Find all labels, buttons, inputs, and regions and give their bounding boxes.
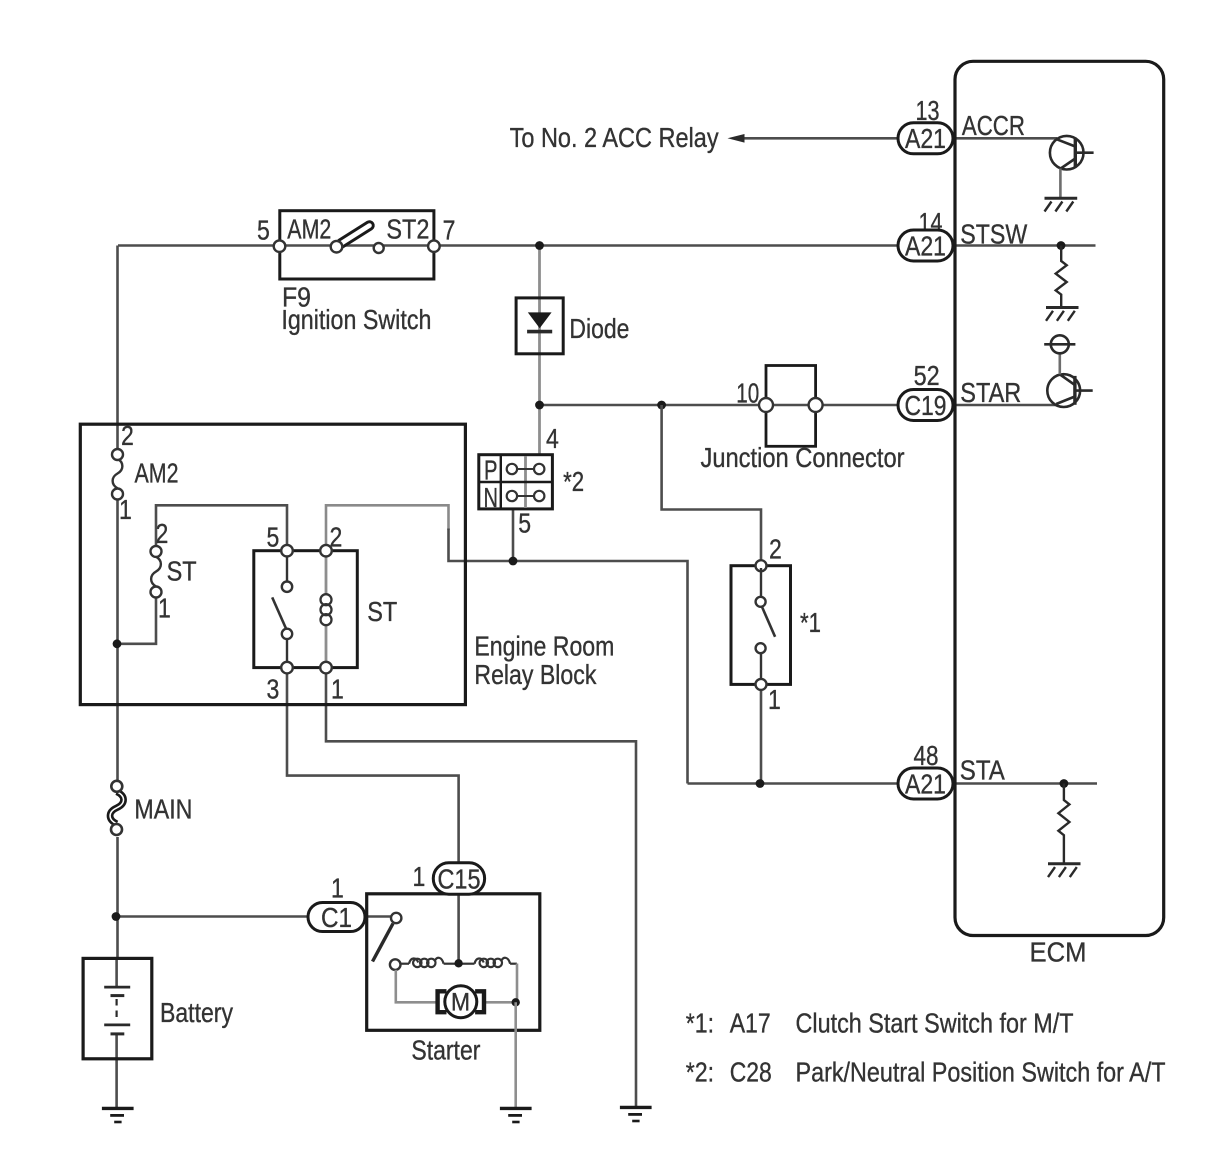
svg-text:AM2: AM2 xyxy=(135,458,179,489)
svg-text:A21: A21 xyxy=(905,123,946,154)
engine room relay block box xyxy=(80,424,465,704)
svg-text:ST: ST xyxy=(167,556,197,587)
wire starter to ground xyxy=(514,1002,517,1107)
wire solenoid left terminal to motor xyxy=(396,970,437,1002)
connector oval A21 pin13 xyxy=(898,123,953,154)
transistor STAR inside ECM xyxy=(1047,353,1092,407)
motor left brush bracket xyxy=(438,991,447,1012)
ground chassis under STSW resistor xyxy=(1046,308,1079,321)
wire branch down to clutch start switch xyxy=(662,405,761,566)
svg-text:C28: C28 xyxy=(730,1056,772,1087)
svg-text:To No. 2 ACC Relay: To No. 2 ACC Relay xyxy=(510,122,719,153)
svg-text:Diode: Diode xyxy=(569,313,629,344)
svg-text:A21: A21 xyxy=(905,768,946,799)
svg-text:2: 2 xyxy=(156,518,169,549)
battery plates xyxy=(104,987,130,1034)
svg-text:52: 52 xyxy=(914,360,940,391)
svg-text:2: 2 xyxy=(330,522,343,553)
svg-text:AM2: AM2 xyxy=(287,214,331,245)
svg-text:ST2: ST2 xyxy=(386,214,429,245)
node junction dot STSW pulldown xyxy=(1057,241,1066,250)
wire ST fuse bottom to main vertical xyxy=(118,598,157,644)
fuse AM2 xyxy=(112,449,123,500)
fusible link MAIN xyxy=(110,781,124,835)
relay pin 5 terminal xyxy=(281,545,293,557)
svg-text:1: 1 xyxy=(768,684,781,715)
wire relay pin1 coil to ground xyxy=(326,668,636,1107)
relay switch contact stub from pin5 xyxy=(286,557,288,582)
transistor ACCR inside ECM xyxy=(1050,136,1094,198)
wire motor right to junction xyxy=(485,1001,516,1004)
svg-text:STAR: STAR xyxy=(960,377,1021,408)
diode triangle xyxy=(528,312,552,328)
svg-text:N: N xyxy=(484,482,499,513)
svg-text:7: 7 xyxy=(443,215,456,246)
resistor STSW pulldown xyxy=(1056,246,1067,308)
clutch switch lower contact xyxy=(756,643,766,653)
junction connector left terminal xyxy=(759,398,773,412)
node junction dot STA pulldown xyxy=(1060,779,1069,788)
svg-text:ST: ST xyxy=(367,596,397,627)
connector oval C19 pin52 xyxy=(898,390,953,421)
svg-text:48: 48 xyxy=(914,740,939,771)
svg-text:4: 4 xyxy=(546,423,559,454)
relay coil loops xyxy=(321,594,332,625)
wire ACCR line from arrow to ECM transistor xyxy=(744,137,1057,140)
node junction dot clutch switch on STA line xyxy=(756,779,765,788)
node junction dot main vertical and ST fuse xyxy=(113,639,122,648)
park/neutral position switch box xyxy=(479,455,553,509)
svg-text:10: 10 xyxy=(736,378,759,409)
node junction dot P/N pin5 wire xyxy=(509,557,518,566)
ground chassis under ACCR transistor xyxy=(1045,198,1078,211)
svg-text:5: 5 xyxy=(518,508,531,539)
relay switch lever xyxy=(272,597,286,628)
svg-text:Battery: Battery xyxy=(160,997,233,1028)
wire P/N switch pin5 down to junction xyxy=(512,509,515,561)
battery box xyxy=(83,958,152,1058)
ignition switch terminal 5 xyxy=(274,240,286,252)
motor M circle xyxy=(445,986,477,1018)
svg-text:5: 5 xyxy=(257,215,270,246)
svg-text:1: 1 xyxy=(331,873,344,904)
wire STSW line (ignition switch row) xyxy=(118,244,1096,247)
svg-text:Park/Neutral Position Switch f: Park/Neutral Position Switch for A/T xyxy=(796,1056,1166,1087)
svg-text:STA: STA xyxy=(960,755,1005,786)
wire diode branch vertical xyxy=(538,246,541,455)
relay pin 2 terminal xyxy=(320,545,332,557)
relay switch stub to pin3 xyxy=(286,639,288,662)
svg-text:*2: *2 xyxy=(563,466,584,497)
clutch switch upper contact xyxy=(756,597,766,607)
P/N switch internal gray wire xyxy=(524,456,527,508)
svg-text:Relay Block: Relay Block xyxy=(474,659,597,690)
power feed circle above STAR transistor xyxy=(1044,335,1075,353)
connector oval C1 xyxy=(308,903,365,932)
starter magnetic switch contact xyxy=(391,913,401,923)
relay switch upper contact xyxy=(282,582,292,592)
svg-text:Clutch Start Switch for M/T: Clutch Start Switch for M/T xyxy=(796,1008,1074,1039)
starter solenoid left terminal xyxy=(390,959,401,970)
svg-text:*2:: *2: xyxy=(686,1056,714,1087)
P/N switch P row contacts xyxy=(507,464,545,474)
svg-text:MAIN: MAIN xyxy=(134,794,192,825)
ignition switch F9 box xyxy=(280,211,434,279)
ground battery xyxy=(102,1108,134,1122)
svg-text:ECM: ECM xyxy=(1030,937,1087,968)
starter box xyxy=(367,894,540,1031)
resistor STA pulldown xyxy=(1058,784,1069,864)
wire battery to C1 starter xyxy=(116,915,391,918)
ignition switch lever xyxy=(341,226,370,244)
node junction dot diode bottom xyxy=(535,401,544,410)
svg-text:1: 1 xyxy=(331,674,344,705)
svg-text:2: 2 xyxy=(769,534,782,565)
relay pin 3 terminal xyxy=(281,662,293,674)
clutch switch internal stubs xyxy=(760,568,762,682)
node junction dot solenoid center xyxy=(454,959,462,967)
ground starter xyxy=(500,1108,532,1122)
P/N switch N row contacts xyxy=(507,491,545,501)
starter solenoid coil 1 xyxy=(401,958,459,967)
svg-text:Engine Room: Engine Room xyxy=(474,630,614,661)
ECM box xyxy=(955,61,1164,935)
node junction dot STAR branch xyxy=(657,401,666,410)
svg-text:2: 2 xyxy=(121,420,134,451)
relay pin 1 terminal xyxy=(320,662,332,674)
wire ST fuse to relay pin5 xyxy=(156,505,287,550)
node junction dot battery wire xyxy=(112,912,121,921)
clutch switch pin 1 terminal xyxy=(756,679,767,690)
svg-text:STSW: STSW xyxy=(960,219,1027,250)
node junction dot motor right xyxy=(512,998,520,1006)
svg-text:A17: A17 xyxy=(730,1008,771,1039)
relay coil wire xyxy=(325,557,328,663)
junction connector right terminal xyxy=(809,398,823,412)
P/N switch dividers xyxy=(479,455,553,509)
relay switch lower contact xyxy=(282,629,292,639)
clutch start switch box xyxy=(731,566,791,685)
ignition switch AM2 contact xyxy=(331,241,343,253)
ground chassis under STA resistor xyxy=(1048,864,1081,877)
clutch switch pin 2 terminal xyxy=(756,560,767,571)
svg-text:*1: *1 xyxy=(800,607,821,638)
fuse ST xyxy=(151,546,162,598)
ignition switch terminal 7 xyxy=(428,240,440,252)
ignition switch middle contact xyxy=(374,243,384,253)
svg-text:5: 5 xyxy=(267,522,280,553)
svg-text:ACCR: ACCR xyxy=(962,110,1025,141)
svg-text:1: 1 xyxy=(119,494,132,525)
svg-text:C1: C1 xyxy=(321,902,352,933)
svg-text:1: 1 xyxy=(158,593,171,624)
wire clutch switch to STA line xyxy=(760,685,763,784)
connector oval A21 pin48 xyxy=(898,768,953,799)
svg-text:Starter: Starter xyxy=(411,1035,480,1066)
clutch switch lever xyxy=(762,607,775,637)
wire STAR line from diode to ECM xyxy=(539,404,1056,407)
starter solenoid coil 2 xyxy=(459,958,517,967)
svg-text:1: 1 xyxy=(413,861,426,892)
junction connector box xyxy=(766,366,816,447)
diode bar xyxy=(527,330,552,334)
svg-text:3: 3 xyxy=(267,674,280,705)
connector oval C15 xyxy=(433,863,484,894)
svg-text:A21: A21 xyxy=(905,230,946,261)
motor right brush bracket xyxy=(475,991,484,1012)
wire STA line to ECM xyxy=(688,782,1098,785)
arrow To No. 2 ACC Relay xyxy=(728,134,745,143)
connector oval A21 pin14 xyxy=(898,230,953,261)
wire relay pin3 to starter C15 xyxy=(287,668,459,964)
ground relay coil xyxy=(620,1107,652,1121)
node junction dot at ST2 line and diode xyxy=(535,241,544,250)
svg-text:C15: C15 xyxy=(438,863,481,894)
svg-text:C19: C19 xyxy=(905,390,947,421)
svg-text:*1:: *1: xyxy=(686,1008,714,1039)
starter switch lever xyxy=(373,924,394,962)
svg-text:Ignition Switch: Ignition Switch xyxy=(281,304,431,335)
relay ST box xyxy=(254,551,357,668)
wire relay pin2 to P/N junction and STA line xyxy=(326,505,449,550)
svg-text:M: M xyxy=(451,989,470,1017)
svg-text:Junction Connector: Junction Connector xyxy=(701,442,905,473)
diode box xyxy=(516,298,563,354)
wire left main vertical battery feed xyxy=(115,246,119,1108)
wire solenoid right to motor junction xyxy=(516,964,519,1003)
